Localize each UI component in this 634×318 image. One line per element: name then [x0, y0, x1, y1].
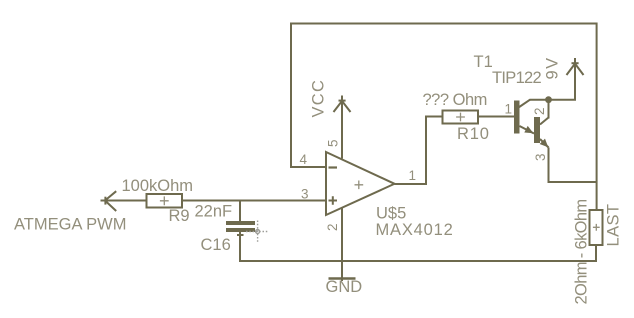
svg-text:C16: C16 — [201, 236, 231, 254]
svg-text:R10: R10 — [457, 125, 490, 143]
svg-text:U$5: U$5 — [376, 205, 406, 223]
svg-text:1: 1 — [409, 168, 417, 183]
base bar stage 1 — [514, 101, 520, 134]
svg-text:2: 2 — [325, 223, 340, 231]
svg-text:9V: 9V — [544, 56, 562, 79]
wire emitter net down and right — [548, 148, 597, 183]
svg-text:3: 3 — [301, 187, 309, 202]
resistor R9 — [147, 194, 183, 208]
svg-text:LAST: LAST — [605, 204, 623, 247]
op-amp inverting input minus mark — [329, 166, 338, 168]
VCC supply symbol — [334, 96, 351, 113]
wire net loop right edge down to load — [596, 23, 598, 211]
emitter stage 1 with arrow — [520, 126, 535, 134]
svg-text:22nF: 22nF — [195, 202, 233, 220]
collector stage 1 diagonal — [519, 100, 531, 108]
input arrow ATMEGA PWM — [101, 191, 117, 211]
svg-text:VCC: VCC — [310, 79, 328, 118]
op-amp center plus mark — [355, 181, 364, 190]
svg-text:2Ohm - 6kOhm: 2Ohm - 6kOhm — [573, 200, 591, 305]
base bar stage 2 — [534, 117, 540, 143]
wire input net pin3 — [105, 200, 326, 202]
svg-text:1: 1 — [505, 102, 513, 117]
svg-text:MAX4012: MAX4012 — [376, 221, 454, 239]
wire bottom net to load — [239, 260, 596, 262]
wire net loop top edge — [290, 23, 597, 25]
svg-text:5: 5 — [325, 139, 340, 147]
svg-text:GND: GND — [326, 278, 363, 296]
svg-text:??? Ohm: ??? Ohm — [423, 91, 487, 109]
wire collector net to 9V — [530, 58, 576, 101]
transistor T1 TIP122 darlington — [514, 100, 549, 148]
junction dot collector node — [545, 96, 552, 103]
9V supply symbol — [567, 58, 584, 75]
svg-text:2: 2 — [532, 107, 547, 115]
wire op-amp pin5 to VCC — [341, 96, 343, 159]
wire R10 to transistor base — [478, 116, 514, 118]
wire load LAST bottom lead — [595, 245, 597, 262]
capacitor C16 — [226, 221, 255, 232]
emitter stage 2 with arrow — [540, 139, 549, 148]
svg-text:ATMEGA PWM: ATMEGA PWM — [14, 216, 126, 234]
op-amp non-inverting input plus mark — [329, 196, 338, 205]
resistor R10 — [443, 111, 479, 124]
svg-text:R9: R9 — [169, 207, 190, 225]
wire net VCC-loop left edge (pin4 feedback) — [291, 24, 326, 168]
wire capacitor branch from pin3 net — [239, 201, 241, 222]
pin cross capacitor C16 bottom pin — [237, 234, 244, 236]
wire capacitor C16 bottom lead — [239, 232, 241, 261]
wire op-amp output pin1 up to R10 — [395, 117, 443, 185]
svg-text:100kOhm: 100kOhm — [122, 177, 194, 195]
op-amp U$5 triangle — [326, 152, 395, 215]
collector stage 2 — [540, 100, 549, 125]
ground symbol GND — [329, 277, 356, 280]
svg-text:3: 3 — [533, 153, 548, 161]
svg-text:4: 4 — [300, 152, 308, 167]
svg-text:T1: T1 — [474, 53, 493, 71]
svg-text:TIP122: TIP122 — [492, 69, 542, 87]
origin cross C16 (dotted) — [246, 221, 269, 244]
resistor LAST (load) — [590, 210, 603, 245]
wire op-amp pin2 to ground — [341, 207, 343, 281]
